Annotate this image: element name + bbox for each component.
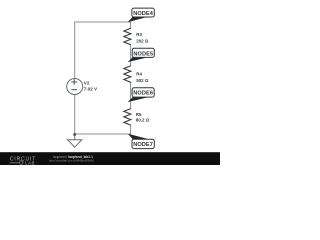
wire: bottom horizontal rail to chain xyxy=(75,133,131,135)
svg-text:502 Ω: 502 Ω xyxy=(136,78,149,83)
svg-text:V2: V2 xyxy=(84,81,90,86)
svg-text:LAB: LAB xyxy=(25,160,35,165)
wire: from V2 bottom down to bottom rail xyxy=(74,94,76,134)
label R3 value xyxy=(136,32,149,43)
node C flag NODE6 xyxy=(128,97,149,102)
svg-text:NODE7: NODE7 xyxy=(133,142,153,148)
footer logo LAB line xyxy=(10,160,35,165)
wire: left vertical from top corner down to V2 top xyxy=(74,22,76,79)
svg-text:NODE4: NODE4 xyxy=(133,11,154,17)
wire: top horizontal from V2 to chain xyxy=(75,21,131,23)
node B flag NODE5 xyxy=(128,57,149,62)
svg-text:R4: R4 xyxy=(136,72,142,77)
svg-text:R3: R3 xyxy=(136,32,142,37)
resistor R5 xyxy=(124,109,131,126)
wire: chain segment R3 to R4 xyxy=(130,45,132,66)
label R5 value xyxy=(136,112,150,122)
wire: chain segment NODE4 to R3 xyxy=(130,22,132,28)
svg-text:http://circuitlab.com/c/9648au: http://circuitlab.com/c/9648au5f9z8d xyxy=(49,159,94,163)
node C label NODE6 xyxy=(132,88,154,97)
label V2 value xyxy=(84,81,98,92)
node D flag NODE7 xyxy=(128,134,149,140)
node B label NODE5 xyxy=(132,48,154,57)
resistor R3 xyxy=(124,28,131,45)
node A label NODE4 xyxy=(132,8,154,17)
wire: chain segment R5 to bottom rail xyxy=(130,125,132,134)
svg-text:202 Ω: 202 Ω xyxy=(136,38,149,43)
svg-text:7.02 V: 7.02 V xyxy=(84,87,98,92)
svg-text:R5: R5 xyxy=(136,112,142,117)
voltage source V2 xyxy=(67,79,83,95)
label R4 value xyxy=(136,72,149,84)
wire: chain segment R4 to R5 xyxy=(130,82,132,109)
junction dot at ground tap xyxy=(73,133,76,136)
node D label NODE7 xyxy=(132,139,154,148)
svg-text:80.2 Ω: 80.2 Ω xyxy=(136,117,150,122)
ground xyxy=(68,134,82,147)
svg-text:NODE6: NODE6 xyxy=(133,91,153,97)
svg-text:NODE5: NODE5 xyxy=(133,51,153,57)
resistor R4 xyxy=(124,66,131,83)
footer bar xyxy=(0,152,220,165)
node A flag NODE4 xyxy=(128,17,149,23)
